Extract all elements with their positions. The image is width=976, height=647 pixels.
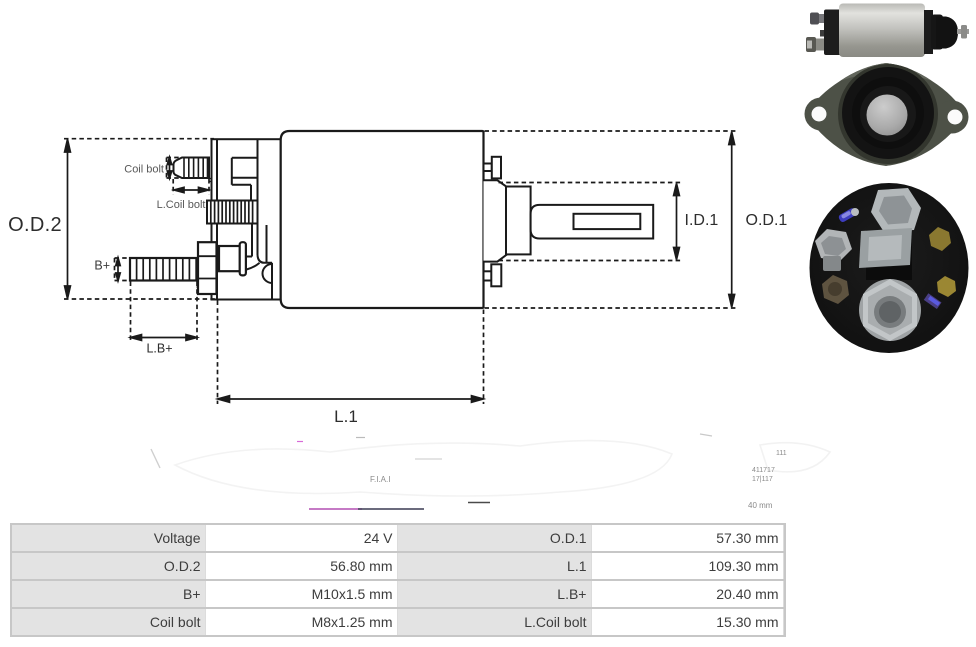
svg-text:L.B+: L.B+ — [146, 342, 172, 356]
svg-text:B+: B+ — [94, 259, 110, 273]
svg-text:111: 111 — [776, 450, 787, 457]
svg-text:40 mm: 40 mm — [748, 501, 773, 510]
svg-text:I.D.1: I.D.1 — [685, 212, 719, 229]
svg-text:Coil bolt: Coil bolt — [124, 164, 164, 176]
svg-text:L.Coil bolt: L.Coil bolt — [157, 199, 206, 211]
svg-text:F.I.A.I: F.I.A.I — [370, 475, 390, 484]
svg-text:O.D.2: O.D.2 — [8, 214, 62, 236]
svg-text:O.D.1: O.D.1 — [746, 212, 788, 229]
svg-text:L.1: L.1 — [334, 407, 358, 426]
svg-text:17|117: 17|117 — [752, 476, 773, 483]
svg-text:411717: 411717 — [752, 467, 775, 474]
